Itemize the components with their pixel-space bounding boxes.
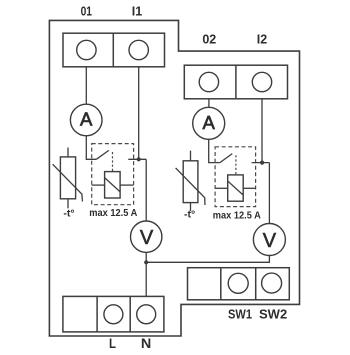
terminal SW2 bbox=[262, 273, 282, 293]
wire V1 to N bbox=[145, 252, 147, 296]
mechanical link S1-K1 bbox=[112, 152, 114, 172]
voltmeter V2 bbox=[253, 224, 285, 256]
svg-text:max 12.5 A: max 12.5 A bbox=[213, 209, 261, 221]
relay coil K1 bbox=[92, 172, 134, 198]
svg-text:02: 02 bbox=[202, 32, 216, 46]
terminal block TB3 (L/N) bbox=[63, 296, 164, 332]
svg-text:N: N bbox=[141, 335, 151, 350]
ammeter A2 bbox=[193, 107, 225, 139]
wire O2 to A2 bbox=[208, 99, 210, 108]
wire I1 down bbox=[138, 67, 140, 160]
junction node I1/S1 bbox=[137, 157, 141, 161]
relay coil K2 bbox=[215, 175, 256, 201]
terminal block TB1 (O1/I1) bbox=[63, 33, 165, 67]
device outline bbox=[49, 20, 299, 336]
terminal O2 bbox=[199, 72, 218, 91]
svg-text:-t°: -t° bbox=[184, 208, 195, 220]
thermistor RT1 bbox=[53, 148, 83, 209]
svg-text:SW2: SW2 bbox=[259, 306, 287, 321]
terminal I2 bbox=[252, 72, 271, 91]
wire A1 to switch S1 bbox=[86, 136, 96, 160]
ammeter A1 bbox=[70, 104, 102, 136]
switch contact S2 bbox=[220, 154, 270, 163]
wire S1 to V1 bbox=[145, 159, 147, 221]
svg-text:I1: I1 bbox=[132, 5, 142, 19]
wire junction to V2 bbox=[146, 256, 269, 263]
terminal N bbox=[137, 305, 156, 324]
svg-text:max 12.5 A: max 12.5 A bbox=[89, 207, 137, 219]
wire S2 to V2 bbox=[268, 163, 270, 224]
voltmeter V1 bbox=[131, 221, 162, 252]
svg-text:I2: I2 bbox=[257, 32, 267, 46]
svg-text:A: A bbox=[80, 109, 93, 130]
wire A2 to switch S2 bbox=[209, 139, 220, 162]
wire O1 to A1 bbox=[85, 67, 87, 104]
terminal I1 bbox=[129, 40, 148, 59]
svg-text:L: L bbox=[109, 335, 116, 350]
svg-text:SW1: SW1 bbox=[228, 306, 252, 321]
terminal block TB2 (O2/I2) bbox=[184, 65, 287, 99]
svg-text:-t°: -t° bbox=[63, 207, 74, 219]
junction node I2/S2 bbox=[260, 161, 264, 165]
terminal block TB4 (SW1/SW2) bbox=[188, 268, 290, 300]
mechanical link S2-K2 bbox=[235, 155, 237, 175]
svg-text:01: 01 bbox=[81, 5, 92, 19]
terminal SW1 bbox=[228, 273, 248, 293]
terminal L bbox=[104, 305, 123, 324]
terminal O1 bbox=[77, 40, 96, 59]
relay module K2 dashed box bbox=[215, 147, 256, 207]
junction node N/V2 bbox=[144, 260, 148, 264]
svg-text:V: V bbox=[263, 230, 277, 252]
relay module K1 dashed box bbox=[92, 144, 134, 205]
thermistor RT2 bbox=[176, 151, 205, 212]
wire I2 down bbox=[261, 99, 263, 163]
switch contact S1 bbox=[96, 150, 146, 159]
svg-text:A: A bbox=[203, 112, 216, 133]
svg-text:V: V bbox=[140, 227, 154, 249]
